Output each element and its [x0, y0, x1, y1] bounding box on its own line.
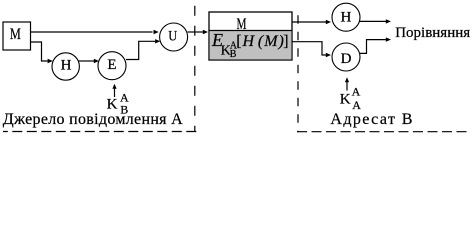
svg-text:K: K [340, 91, 351, 107]
wire U to block [188, 31, 203, 33]
wire block to H2 [292, 21, 326, 23]
block divider [209, 30, 292, 32]
svg-text:U: U [168, 28, 177, 44]
transmitted block outer [209, 12, 292, 60]
key arrow into D [346, 82, 348, 91]
wire H2 to comparison [359, 20, 386, 22]
wire M to U [31, 31, 153, 33]
svg-text:M: M [10, 26, 21, 43]
svg-text:M: M [263, 33, 279, 50]
box M source message [3, 22, 31, 50]
svg-text:М: М [237, 16, 247, 33]
dashed boundary addressee B vertical [297, 15, 299, 132]
svg-text:A: A [352, 85, 361, 99]
combiner U [160, 23, 188, 51]
wire H1 to E [78, 60, 94, 62]
svg-text:A: A [352, 98, 361, 112]
svg-text:Порівняння: Порівняння [395, 25, 470, 41]
svg-text:[: [ [236, 33, 241, 50]
svg-text:]: ] [283, 33, 288, 50]
dashed boundary source A bottom [3, 131, 196, 133]
svg-text:B: B [230, 49, 237, 60]
wire M down to H1 [31, 42, 48, 61]
svg-text:H: H [242, 33, 256, 50]
svg-text:Джерело повідомлення А: Джерело повідомлення А [3, 111, 183, 128]
hash function H1 [52, 53, 79, 80]
svg-text:H: H [61, 58, 72, 74]
wire D to comparison [360, 40, 386, 54]
dashed boundary addressee B bottom [297, 131, 470, 133]
key arrow into E [114, 88, 116, 97]
gray hash section [210, 31, 292, 59]
dashed boundary source A vertical [194, 6, 196, 132]
hash function H2 [332, 3, 360, 31]
encrypt function E [98, 52, 126, 80]
svg-text:E: E [107, 57, 116, 73]
svg-text:D: D [341, 51, 352, 67]
svg-text:Адресат В: Адресат В [330, 111, 413, 128]
wire E to U [126, 41, 155, 59]
svg-text:H: H [340, 9, 351, 25]
decrypt function D [332, 43, 360, 71]
wire block to D [292, 42, 326, 55]
